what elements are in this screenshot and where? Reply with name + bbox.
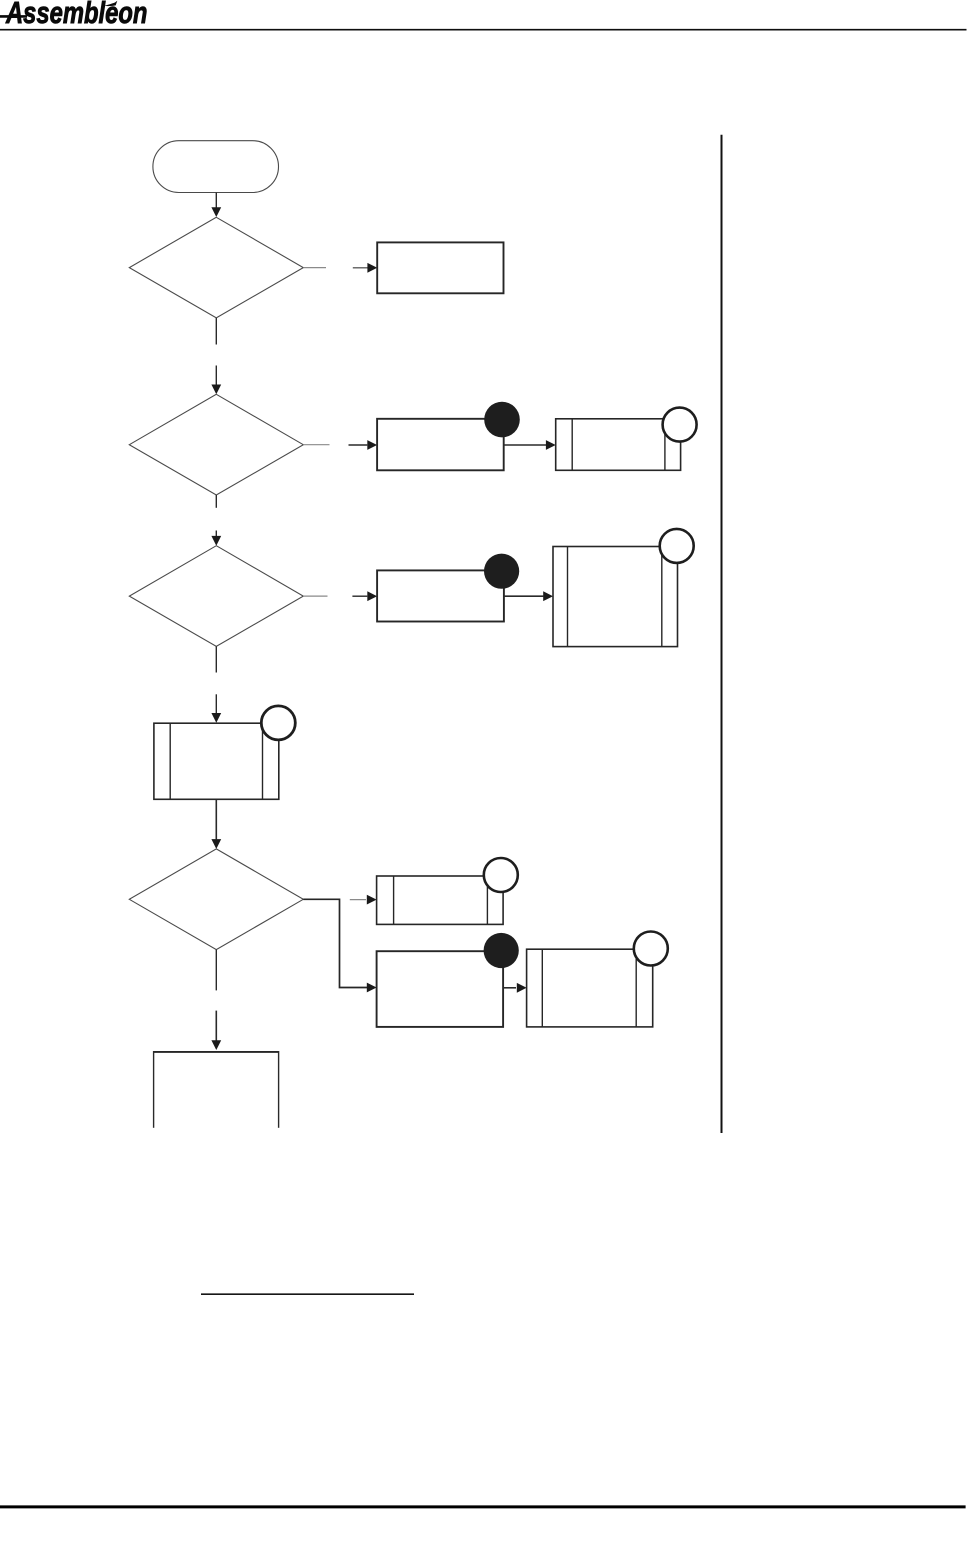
decision diamond D2 xyxy=(129,394,303,495)
black connector dot on P3 xyxy=(484,554,519,589)
arrowhead into B1 xyxy=(546,440,556,450)
process box P4 xyxy=(377,951,504,1027)
predefined process box B4 xyxy=(527,949,653,1027)
black connector dot on P4 xyxy=(484,933,519,968)
process box P3 xyxy=(377,570,504,621)
predefined process box B3 xyxy=(154,723,279,799)
wire terminator to decision D1 xyxy=(215,193,217,209)
arrowhead into P2 xyxy=(367,440,377,450)
wire arrow into predefined B3 xyxy=(215,694,217,713)
process box P1 xyxy=(377,242,503,293)
decision diamond D3 xyxy=(129,546,303,647)
wire D2 bottom tail xyxy=(215,495,217,508)
wire arrow into decision D2 xyxy=(215,366,217,386)
header rule xyxy=(0,29,967,31)
black connector dot on P2 xyxy=(484,402,520,438)
wire D3 bottom tail xyxy=(215,646,217,672)
white connector circle on B4 xyxy=(634,932,668,966)
process box P2 xyxy=(377,419,504,471)
wire D4 right elbow down to P4 xyxy=(303,899,367,987)
wire arrow into process P1 xyxy=(353,267,368,269)
wire D1 bottom tail xyxy=(215,318,217,345)
arrowhead into B3 xyxy=(211,713,221,723)
arrowhead into P1 xyxy=(367,263,377,273)
decision diamond D1 xyxy=(129,217,303,318)
arrowhead into P3 xyxy=(367,591,377,601)
arrowhead into P4 xyxy=(367,983,377,993)
bottom clipped box xyxy=(154,1051,279,1128)
wire arrow into process P2 xyxy=(349,444,368,446)
arrowhead into D1 xyxy=(211,207,221,217)
arrowhead into D3 xyxy=(211,536,221,546)
arrowhead into D4 xyxy=(211,839,221,849)
predefined process box B4a xyxy=(377,876,504,924)
white connector circle on B1 xyxy=(663,408,697,442)
wire P3 to predefined B2 xyxy=(504,595,544,597)
footer rule xyxy=(0,1505,966,1508)
wire arrow into bottom box xyxy=(215,1011,217,1041)
wire D3 right stub xyxy=(303,595,327,597)
arrowhead into B2 xyxy=(543,591,553,601)
wire D1 right stub xyxy=(303,267,326,269)
white connector circle on B3 xyxy=(261,706,295,740)
arrowhead into D2 xyxy=(211,385,221,395)
logo A crossbar strike xyxy=(0,15,27,18)
decision diamond D4 xyxy=(129,849,303,950)
logo Assembleon wordmark xyxy=(5,0,147,30)
mid page horizontal rule xyxy=(201,1293,414,1295)
white connector circle on B2 xyxy=(660,529,694,563)
wire P4 to predefined B4 xyxy=(503,987,516,989)
predefined process box B2 xyxy=(553,547,678,647)
wire grey stub into predefined B4a xyxy=(350,899,366,901)
wire arrow into decision D3 xyxy=(215,531,217,537)
wire P2 to predefined B1 xyxy=(504,444,547,446)
arrowhead into B4a xyxy=(367,895,377,905)
wire D2 right stub xyxy=(303,444,329,446)
wire arrow into process P3 xyxy=(352,595,367,597)
terminator start oval xyxy=(153,141,279,193)
wire D4 bottom tail xyxy=(215,950,217,991)
predefined process box B1 xyxy=(556,419,681,471)
arrowhead into B4 xyxy=(517,983,527,993)
right sidebar change-bar line xyxy=(721,135,723,1133)
svg-text:Assembleon: Assembleon xyxy=(5,0,147,30)
arrowhead into bottom box xyxy=(211,1040,221,1050)
wire B3 to decision D4 xyxy=(215,799,217,839)
white connector circle on B4a xyxy=(484,858,518,892)
